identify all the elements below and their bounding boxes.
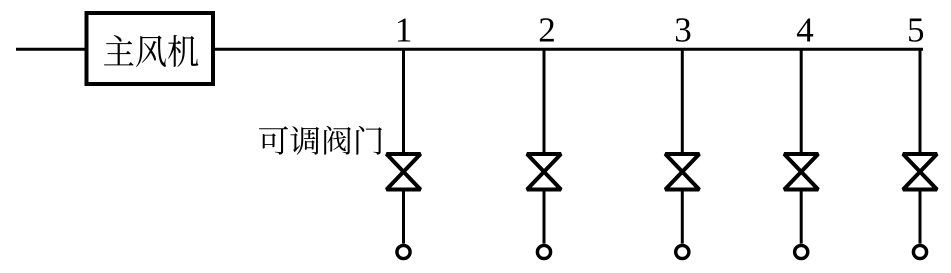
- outlet O3 (open end circle): [676, 245, 689, 258]
- main fan box: [87, 13, 214, 84]
- svg-text:5: 5: [907, 11, 925, 50]
- label 主风机 (main fan): [104, 35, 198, 67]
- label 可调阀门 (adjustable valve): [259, 126, 382, 155]
- valve V4 (adjustable valve bowtie): [784, 154, 818, 190]
- valve V1 (adjustable valve bowtie): [387, 154, 421, 190]
- wire: branch 5 drop to valve: [919, 49, 922, 152]
- wire: branch 5 valve to outlet: [919, 192, 922, 244]
- valve V5 (adjustable valve bowtie): [903, 154, 937, 190]
- outlet O1 (open end circle): [397, 245, 410, 258]
- wire: branch 2 drop to valve: [543, 49, 546, 152]
- valve V2 (adjustable valve bowtie): [527, 154, 561, 190]
- valve V3 (adjustable valve bowtie): [665, 154, 699, 190]
- svg-text:3: 3: [674, 11, 692, 50]
- outlet O5 (open end circle): [913, 245, 926, 258]
- wire: inlet lead into main fan: [16, 48, 85, 51]
- wire: branch 4 valve to outlet: [800, 192, 803, 244]
- wire: branch 1 valve to outlet: [402, 192, 405, 244]
- wire: branch 4 drop to valve: [800, 49, 803, 152]
- wire: main duct from fan to branch 5: [215, 48, 923, 51]
- wire: branch 3 valve to outlet: [681, 192, 684, 244]
- wire: branch 1 drop to valve: [402, 49, 405, 152]
- svg-text:4: 4: [796, 11, 814, 50]
- wire: branch 3 drop to valve: [681, 49, 684, 152]
- wire: branch 2 valve to outlet: [543, 192, 546, 244]
- svg-text:2: 2: [538, 11, 556, 50]
- svg-text:1: 1: [395, 11, 413, 50]
- outlet O4 (open end circle): [795, 245, 808, 258]
- outlet O2 (open end circle): [537, 245, 550, 258]
